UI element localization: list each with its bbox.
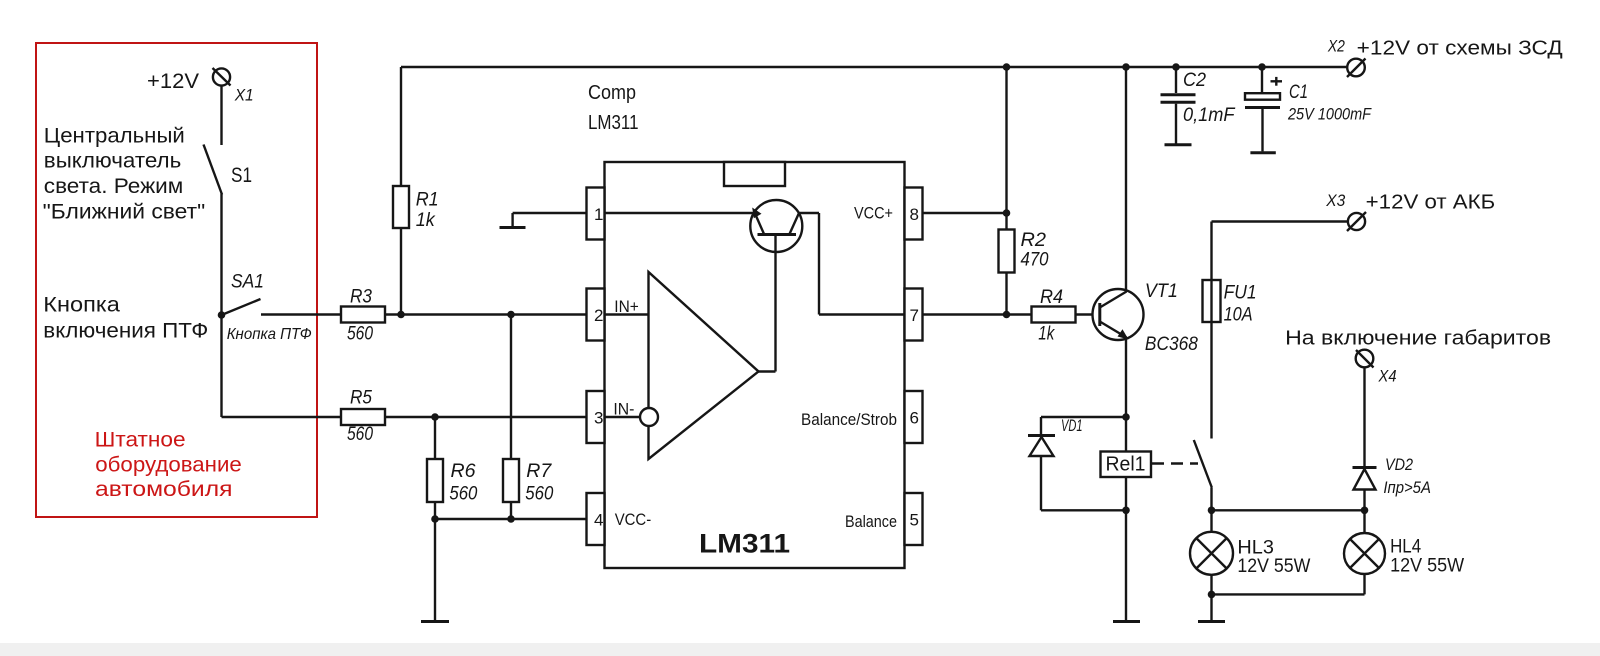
svg-text:1k: 1k xyxy=(1038,324,1055,345)
svg-text:Кнопка: Кнопка xyxy=(43,294,120,317)
op-amp U1 LM311 body xyxy=(605,162,905,568)
IC notch xyxy=(724,162,785,186)
node pin7 / R2 / R4 xyxy=(1003,311,1011,319)
comparator triangle xyxy=(649,272,759,459)
wire R3 to pin2 xyxy=(385,313,587,315)
svg-text:C1: C1 xyxy=(1289,82,1308,103)
svg-text:Штатное: Штатное xyxy=(95,428,186,451)
svg-text:Центральный: Центральный xyxy=(44,125,185,148)
resistor R3 xyxy=(341,287,385,345)
inversion bubble on IN- xyxy=(640,408,658,426)
node rail / C2 xyxy=(1172,63,1180,71)
relay coil Rel1 xyxy=(1101,452,1152,478)
wire R6 bottom to ground xyxy=(434,502,436,621)
svg-text:1k: 1k xyxy=(416,210,436,231)
terminal X3 xyxy=(1347,212,1366,231)
svg-text:X4: X4 xyxy=(1378,367,1397,386)
bottom gray strip xyxy=(0,643,1600,656)
note Центральный выключатель света xyxy=(43,125,206,224)
svg-text:12V 55W: 12V 55W xyxy=(1390,556,1464,577)
wire Rel1 down to ground xyxy=(1125,477,1127,621)
switch SA1 blade xyxy=(222,299,261,315)
wire X4 to VD2 xyxy=(1363,367,1365,466)
svg-text:C2: C2 xyxy=(1183,70,1206,91)
svg-text:Кнопка ПТФ: Кнопка ПТФ xyxy=(227,326,312,343)
svg-text:Iпр>5A: Iпр>5A xyxy=(1383,478,1431,497)
node R6/VCC- junction xyxy=(431,515,439,523)
lamp HL3 xyxy=(1190,510,1233,620)
svg-text:света. Режим: света. Режим xyxy=(44,175,184,198)
svg-text:"Ближний свет": "Ближний свет" xyxy=(43,201,206,224)
internal transistor circle xyxy=(750,200,802,252)
svg-text:X3: X3 xyxy=(1325,191,1345,210)
svg-text:X1: X1 xyxy=(234,85,254,104)
wire internal base down to apex xyxy=(759,235,776,372)
svg-text:VD2: VD2 xyxy=(1385,455,1413,474)
node contact output xyxy=(1208,507,1216,515)
svg-text:LM311: LM311 xyxy=(699,529,790,559)
svg-text:HL4: HL4 xyxy=(1390,537,1421,558)
terminal X2 xyxy=(1347,59,1366,78)
svg-text:автомобиля: автомобиля xyxy=(95,478,233,501)
svg-text:10A: 10A xyxy=(1224,305,1253,326)
pin 6 box xyxy=(905,391,923,443)
node R7/VCC- junction xyxy=(507,515,515,523)
wire S1 to SA1 xyxy=(220,194,222,316)
relay contact blade xyxy=(1194,440,1212,510)
wire VCC- row xyxy=(435,518,587,520)
svg-text:1: 1 xyxy=(594,205,603,224)
svg-text:560: 560 xyxy=(347,324,373,345)
capacitor C1 electrolytic xyxy=(1245,67,1372,153)
svg-text:VD1: VD1 xyxy=(1061,416,1083,435)
svg-text:R1: R1 xyxy=(416,190,439,211)
note Кнопка включения ПТФ xyxy=(43,294,208,343)
node Rel1 / VD1 bottom xyxy=(1122,507,1130,515)
svg-text:5: 5 xyxy=(910,511,919,530)
svg-text:2: 2 xyxy=(594,306,603,325)
svg-text:R4: R4 xyxy=(1040,287,1063,308)
svg-text:VCC+: VCC+ xyxy=(854,204,893,223)
node R7/IN+ junction xyxy=(507,311,515,319)
svg-text:R3: R3 xyxy=(350,287,372,308)
internal transistor collector diagonal xyxy=(790,213,800,234)
resistor R6 xyxy=(427,417,478,505)
svg-text:X2: X2 xyxy=(1327,37,1345,56)
pin 1 box xyxy=(587,188,605,240)
pin 3 box xyxy=(587,391,605,443)
wire SA1 to R3 xyxy=(261,313,341,315)
resistor R1 xyxy=(393,67,439,315)
svg-text:оборудование: оборудование xyxy=(95,454,242,477)
diode VD1 xyxy=(1028,417,1126,510)
svg-text:S1: S1 xyxy=(231,164,252,187)
pin 5 box xyxy=(905,493,923,545)
svg-text:выключатель: выключатель xyxy=(44,150,182,173)
lamp HL4 xyxy=(1344,510,1385,594)
resistor R7 xyxy=(503,315,554,520)
wire VT1 emitter down xyxy=(1125,338,1127,452)
internal transistor emitter with arrow xyxy=(752,208,764,235)
svg-text:SA1: SA1 xyxy=(231,272,264,293)
svg-text:IN+: IN+ xyxy=(614,297,639,316)
resistor R4 xyxy=(1032,287,1076,345)
svg-text:Balance/Strob: Balance/Strob xyxy=(801,410,897,429)
svg-text:R7: R7 xyxy=(526,461,552,482)
wire VT1 collector up to rail xyxy=(1125,67,1127,292)
fuse FU1 xyxy=(1203,280,1221,322)
wire SA1 down to IN- row xyxy=(220,315,222,417)
ground stub at pin 1 xyxy=(500,213,587,228)
svg-text:BC368: BC368 xyxy=(1145,334,1198,355)
svg-text:R6: R6 xyxy=(451,461,476,482)
wire contact output row xyxy=(1212,509,1365,511)
node top rail / R2 xyxy=(1003,63,1011,71)
svg-text:+12V: +12V xyxy=(147,70,199,93)
red note Штатное оборудование автомобиля xyxy=(95,428,242,501)
pin 7 box xyxy=(905,289,923,341)
svg-text:+12V от АКБ: +12V от АКБ xyxy=(1366,192,1496,214)
svg-text:470: 470 xyxy=(1021,250,1049,271)
pin 4 box xyxy=(587,493,605,545)
svg-text:R5: R5 xyxy=(350,388,372,409)
svg-text:7: 7 xyxy=(910,306,919,325)
wire X3 to FU1 xyxy=(1212,222,1349,281)
pin 8 box xyxy=(905,188,923,240)
node R1/R3 junction xyxy=(397,311,405,319)
svg-text:560: 560 xyxy=(449,484,477,505)
wire pin2 internal IN+ xyxy=(605,313,649,315)
ground under HL3 xyxy=(1198,620,1225,623)
capacitor C2 xyxy=(1161,67,1236,145)
svg-text:LM311: LM311 xyxy=(588,112,639,134)
svg-text:3: 3 xyxy=(594,409,603,428)
wire left to R5 xyxy=(222,416,342,418)
wire R4 to VT1 base xyxy=(1076,313,1100,315)
svg-text:Rel1: Rel1 xyxy=(1106,454,1146,476)
svg-text:VT1: VT1 xyxy=(1145,281,1178,302)
wire top supply rail xyxy=(401,66,1348,68)
node HL3 bottom xyxy=(1208,591,1216,599)
svg-text:4: 4 xyxy=(594,511,603,530)
wire X1 to S1 xyxy=(220,86,222,145)
ground under R6 xyxy=(421,620,449,623)
svg-text:На включение габаритов: На включение габаритов xyxy=(1285,328,1551,350)
svg-text:IN-: IN- xyxy=(613,400,634,419)
node pin8 / R2 xyxy=(1003,209,1011,217)
node SA1 junction xyxy=(218,311,226,319)
node VD2 / HL4 xyxy=(1361,507,1369,515)
transistor VT1 xyxy=(1093,289,1144,340)
svg-text:560: 560 xyxy=(347,424,373,445)
ground under Rel1 xyxy=(1113,620,1140,623)
svg-text:VCC-: VCC- xyxy=(615,510,652,529)
svg-text:включения ПТФ: включения ПТФ xyxy=(43,320,208,343)
svg-text:12V 55W: 12V 55W xyxy=(1237,556,1310,577)
wire internal collector to pin7 xyxy=(799,213,905,315)
wire FU1 down to relay contact xyxy=(1210,322,1212,439)
svg-text:FU1: FU1 xyxy=(1224,283,1257,304)
svg-text:Comp: Comp xyxy=(588,82,636,104)
red frame Штатное оборудование box xyxy=(36,43,317,517)
terminal X4 xyxy=(1356,350,1374,368)
wire R5 to pin3 xyxy=(385,416,587,418)
svg-text:+12V от схемы ЗСД: +12V от схемы ЗСД xyxy=(1357,38,1564,60)
dashed actuator link xyxy=(1152,462,1198,464)
wire pin7 to R4 xyxy=(923,313,1032,315)
svg-text:6: 6 xyxy=(910,409,919,428)
svg-text:25V 1000mF: 25V 1000mF xyxy=(1287,105,1372,124)
svg-text:560: 560 xyxy=(525,484,553,505)
resistor R2 xyxy=(999,67,1049,315)
internal transistor base bar xyxy=(758,233,797,236)
resistor R5 xyxy=(341,388,385,446)
svg-text:0,1mF: 0,1mF xyxy=(1183,105,1236,126)
svg-text:Balance: Balance xyxy=(845,512,897,531)
wire pin8 to R2 column xyxy=(923,212,1007,214)
node VT1 emitter / VD1 xyxy=(1122,413,1130,421)
node rail / VT1 collector xyxy=(1122,63,1130,71)
svg-text:8: 8 xyxy=(910,205,919,224)
pin 2 box xyxy=(587,289,605,341)
node R5/R6 junction xyxy=(431,413,439,421)
svg-text:R2: R2 xyxy=(1021,230,1047,251)
wire pin1 internal xyxy=(605,212,755,214)
switch S1 blade xyxy=(204,145,223,195)
node rail / C1 xyxy=(1258,63,1266,71)
diode VD2 xyxy=(1353,468,1377,511)
wire lamps bottom row xyxy=(1212,593,1365,595)
terminal X1 xyxy=(213,68,231,86)
wire pin3 internal IN- xyxy=(605,416,641,418)
